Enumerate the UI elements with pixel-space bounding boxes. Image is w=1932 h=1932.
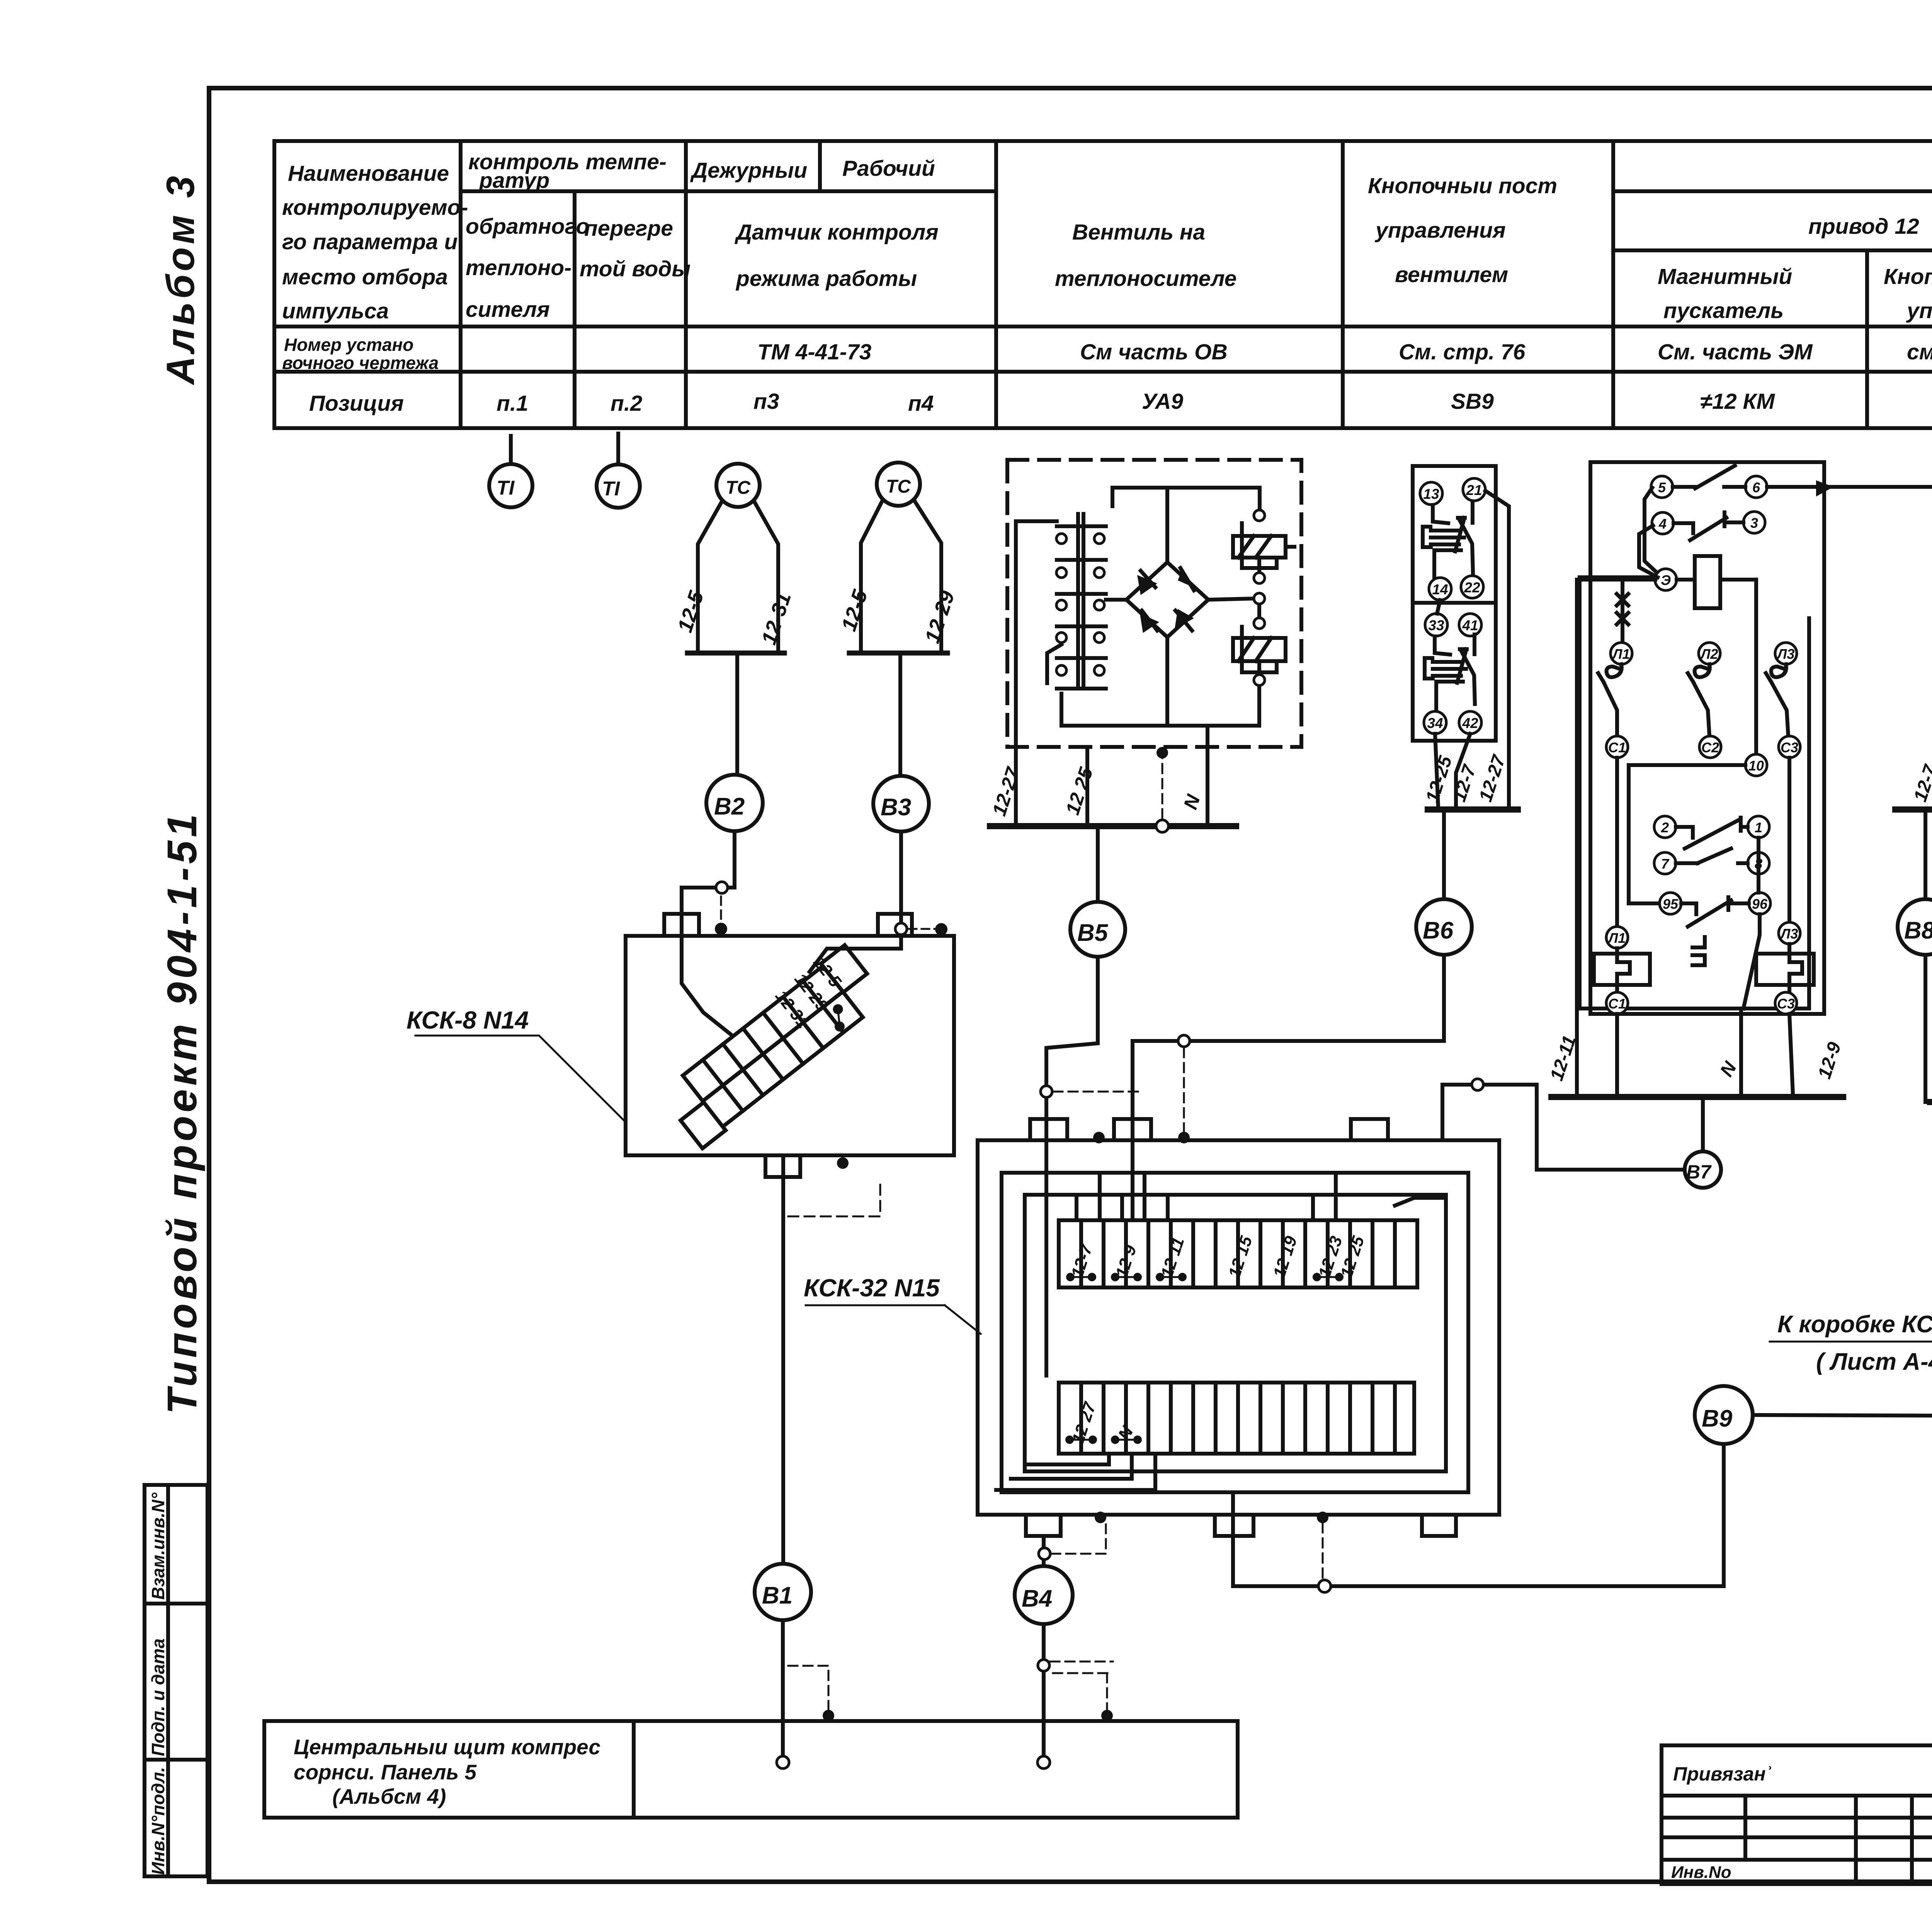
svg-text:В4: В4 xyxy=(1022,1585,1052,1612)
node B4 xyxy=(1015,1566,1073,1624)
svg-text:34: 34 xyxy=(1427,715,1443,731)
starter inner box xyxy=(1580,577,1809,1009)
resistor stack right xyxy=(1233,523,1294,675)
svg-text:SB9: SB9 xyxy=(1451,389,1494,414)
svg-text:той воды: той воды xyxy=(580,257,690,281)
node B3 xyxy=(873,776,929,832)
svg-text:14: 14 xyxy=(1432,582,1448,597)
svg-text:ТС: ТС xyxy=(726,478,751,498)
svg-text:Взам.инв.N°: Взам.инв.N° xyxy=(148,1492,168,1600)
sensor TC p.4 xyxy=(849,463,947,776)
svg-text:Л3: Л3 xyxy=(1776,646,1795,662)
svg-text:ТI: ТI xyxy=(497,477,515,499)
node B5 xyxy=(1096,829,1100,902)
KCK-32 lower terminal strip xyxy=(1059,1383,1414,1454)
wire B6 to KCK-32 xyxy=(1133,955,1444,1220)
sensor TC p.3 xyxy=(687,464,784,775)
svg-text:п.1: п.1 xyxy=(497,391,528,416)
svg-text:См часть ОВ: См часть ОВ xyxy=(1080,340,1228,364)
wire KCK-8 to B1 xyxy=(765,1155,800,1564)
svg-text:В8: В8 xyxy=(1904,917,1932,944)
internal bridge wiring xyxy=(1061,488,1260,726)
table texts xyxy=(282,150,1932,416)
svg-text:обратного: обратного xyxy=(466,214,589,239)
svg-text:95: 95 xyxy=(1663,896,1679,912)
svg-text:Датчик контроля: Датчик контроля xyxy=(734,220,939,245)
contact 5-6 xyxy=(1651,476,1673,498)
bus under UA9 xyxy=(990,823,1236,829)
bus under 12SB xyxy=(1895,806,1932,813)
svg-text:В3: В3 xyxy=(881,794,911,821)
svg-text:С3: С3 xyxy=(1777,996,1795,1012)
svg-text:п3: п3 xyxy=(753,389,779,414)
node B2 xyxy=(706,775,763,831)
svg-text:сорнси. Панель 5: сорнси. Панель 5 xyxy=(294,1760,477,1784)
node B7 and wire to bus xyxy=(1442,1085,1685,1170)
svg-text:импульса: импульса xyxy=(282,299,389,323)
vertical lines xyxy=(459,141,463,428)
svg-text:3: 3 xyxy=(1750,515,1758,531)
svg-text:В6: В6 xyxy=(1423,917,1454,944)
svg-text:Типовой проект 904-1-51: Типовой проект 904-1-51 xyxy=(158,811,205,1414)
left margin vertical labels xyxy=(148,1492,168,1875)
svg-text:22: 22 xyxy=(1464,580,1480,595)
svg-text:УА9: УА9 xyxy=(1142,389,1183,414)
wire B3 to KCK-8 xyxy=(810,832,901,972)
wire B9 to KCK-16 xyxy=(1753,1363,1932,1417)
svg-text:Л1: Л1 xyxy=(1612,646,1630,662)
svg-text:Кнопочный пост: Кнопочный пост xyxy=(1884,264,1932,289)
svg-text:≠12 КМ: ≠12 КМ xyxy=(1700,389,1776,414)
svg-text:Номер устано: Номер устано xyxy=(284,335,413,355)
KCK-32 internal riser wires xyxy=(996,1175,1446,1490)
node B6 xyxy=(1442,812,1446,899)
pushbutton contacts SB9 cell 13-14/21-22 xyxy=(1423,503,1473,578)
dashed enclosure UA9 xyxy=(1007,460,1301,747)
KCK-32 outer box xyxy=(978,1140,1499,1515)
svg-text:п4: п4 xyxy=(908,391,934,416)
svg-text:ратур: ратур xyxy=(478,168,549,193)
svg-text:41: 41 xyxy=(1462,617,1478,633)
svg-text:Подп. и дата: Подп. и дата xyxy=(148,1638,168,1756)
svg-text:режима работы: режима работы xyxy=(735,266,917,291)
svg-text:В5: В5 xyxy=(1077,920,1109,946)
svg-text:13: 13 xyxy=(1423,486,1439,502)
svg-text:теплоносителе: теплоносителе xyxy=(1055,266,1236,291)
horizontal lines xyxy=(461,189,996,193)
svg-text:1: 1 xyxy=(1755,820,1762,835)
svg-text:привод 12: привод 12 xyxy=(1808,214,1919,239)
svg-text:42: 42 xyxy=(1462,715,1478,731)
svg-text:КСК-8 N14: КСК-8 N14 xyxy=(406,1006,529,1034)
svg-text:В2: В2 xyxy=(714,793,745,820)
pushbutton contacts SB9 cell 33-34/41-42 xyxy=(1425,634,1475,709)
contact 4-3 xyxy=(1652,512,1673,534)
svg-text:вочного чертежа: вочного чертежа xyxy=(282,353,439,373)
lamp resistor boxes bottom xyxy=(1606,922,1800,948)
svg-text:Л2: Л2 xyxy=(1700,646,1718,662)
svg-text:Привязанʾ: Привязанʾ xyxy=(1673,1763,1772,1785)
svg-text:С1: С1 xyxy=(1608,996,1626,1012)
rotated terminal strips inside KCK-8 xyxy=(654,940,889,1148)
terminal box KCK-8 N14 xyxy=(626,914,954,1155)
instrument TI p.1 xyxy=(489,436,532,507)
fuse line with xx xyxy=(1617,580,1628,643)
svg-text:См. стр. 76: См. стр. 76 xyxy=(1399,340,1526,364)
svg-text:пускатель: пускатель xyxy=(1663,298,1784,323)
bus under SB9 xyxy=(1428,806,1518,813)
KCK-32 inner wire loops xyxy=(1002,1173,1468,1492)
node B9 xyxy=(1695,1386,1753,1444)
svg-text:перегре: перегре xyxy=(584,216,673,241)
svg-text:С3: С3 xyxy=(1781,740,1798,755)
svg-text:См. часть ЭМ: См. часть ЭМ xyxy=(1658,340,1813,364)
svg-text:сителя: сителя xyxy=(466,297,550,322)
note to KCK-16 N17 xyxy=(1777,1311,1932,1375)
wire KCK-32 to B4 xyxy=(1042,1536,1046,1565)
starter outer box xyxy=(1590,462,1824,1014)
svg-text:Магнитный: Магнитный xyxy=(1658,264,1792,289)
svg-text:4: 4 xyxy=(1658,516,1667,532)
svg-text:К коробке КСК-16 N 17: К коробке КСК-16 N 17 xyxy=(1777,1311,1932,1338)
svg-text:Позиция: Позиция xyxy=(309,391,404,416)
svg-text:ТМ 4-41-73: ТМ 4-41-73 xyxy=(757,340,872,364)
starter 12KM external: top wire to 12SB xyxy=(1767,480,1932,497)
svg-text:2: 2 xyxy=(1661,820,1669,835)
svg-text:Альбом 3: Альбом 3 xyxy=(158,173,202,386)
instrument TI p.2 xyxy=(597,434,640,508)
wire B5 to KCK-32 xyxy=(1046,957,1098,1376)
svg-text:вентилем: вентилем xyxy=(1395,262,1508,287)
KCK-32 cable glands bottom xyxy=(1026,1515,1456,1536)
svg-text:С2: С2 xyxy=(1701,740,1719,755)
svg-text:Л3: Л3 xyxy=(1780,926,1798,942)
svg-text:ТI: ТI xyxy=(602,478,621,500)
starter 12KM bottom bus xyxy=(1551,1094,1843,1100)
svg-text:Инв.N°подл.: Инв.N°подл. xyxy=(148,1767,168,1875)
SB9 outgoing wires xyxy=(1435,491,1509,807)
svg-text:6: 6 xyxy=(1752,480,1760,495)
node B1 xyxy=(755,1564,811,1620)
lamp rows L1 L2 L3 xyxy=(1611,643,1797,664)
svg-text:Вентиль на: Вентиль на xyxy=(1072,220,1205,245)
svg-text:го параметра и: го параметра и xyxy=(282,230,457,254)
svg-text:Рабочий: Рабочий xyxy=(842,156,935,181)
svg-text:Центральныи щит компрес: Центральныи щит компрес xyxy=(294,1735,600,1759)
svg-text:В9: В9 xyxy=(1702,1405,1733,1432)
svg-text:управления: управления xyxy=(1906,298,1932,323)
diode bridge xyxy=(1126,562,1208,637)
coil circuit xyxy=(1655,569,1677,590)
svg-text:место отбора: место отбора xyxy=(282,265,448,289)
KCK-32 upper terminal strip xyxy=(1059,1220,1417,1287)
svg-text:Инв.No: Инв.No xyxy=(1671,1863,1731,1882)
svg-text:п.2: п.2 xyxy=(611,391,643,416)
attachment box left of title block xyxy=(1662,1745,1932,1884)
svg-text:см стр. 76: см стр. 76 xyxy=(1907,340,1932,364)
svg-text:теплоно-: теплоно- xyxy=(466,255,571,280)
svg-text:ТС: ТС xyxy=(886,476,911,497)
starter 13KM bottom bus xyxy=(1930,1099,1932,1105)
wire B9 return path from KCK-32 xyxy=(1233,1444,1724,1586)
svg-text:96: 96 xyxy=(1752,896,1768,912)
svg-text:В7: В7 xyxy=(1686,1161,1712,1183)
KCK-32 cable glands top xyxy=(1030,1119,1388,1140)
svg-text:С1: С1 xyxy=(1608,740,1626,755)
aux contacts 2-1 7-8 95-96 xyxy=(1654,816,1770,914)
svg-text:8: 8 xyxy=(1755,856,1762,872)
96 down wire xyxy=(1743,914,1760,1009)
svg-text:Э: Э xyxy=(1661,572,1671,588)
svg-text:контролируемо-: контролируемо- xyxy=(282,195,468,220)
contact ladder xyxy=(1078,514,1083,687)
svg-text:(Альбсм 4): (Альбсм 4) xyxy=(332,1784,446,1808)
svg-text:Наименование: Наименование xyxy=(288,161,449,186)
node B8 xyxy=(1923,812,1927,899)
svg-text:Дежурныи: Дежурныи xyxy=(690,158,807,183)
svg-text:5: 5 xyxy=(1658,480,1666,495)
svg-text:21: 21 xyxy=(1466,482,1482,498)
svg-text:Кнопочныи пост: Кнопочныи пост xyxy=(1368,173,1557,198)
loop 10 to 95 xyxy=(1617,758,1789,927)
svg-text:Л1: Л1 xyxy=(1607,930,1626,946)
svg-text:10: 10 xyxy=(1748,758,1764,774)
svg-text:КСК-32 N15: КСК-32 N15 xyxy=(804,1274,940,1302)
wire B2 to KCK-8 xyxy=(682,831,735,1036)
svg-text:( Лист А-40): ( Лист А-40) xyxy=(1816,1349,1932,1375)
pin labels xyxy=(1607,480,1798,1012)
left margin attachment boxes column xyxy=(145,1485,207,1876)
svg-text:В1: В1 xyxy=(762,1582,793,1609)
UA9 outgoing wires xyxy=(1016,521,1207,825)
svg-text:управления: управления xyxy=(1374,218,1506,243)
svg-text:7: 7 xyxy=(1661,856,1670,872)
thermal release symbol xyxy=(1692,937,1705,965)
svg-text:33: 33 xyxy=(1428,617,1444,633)
